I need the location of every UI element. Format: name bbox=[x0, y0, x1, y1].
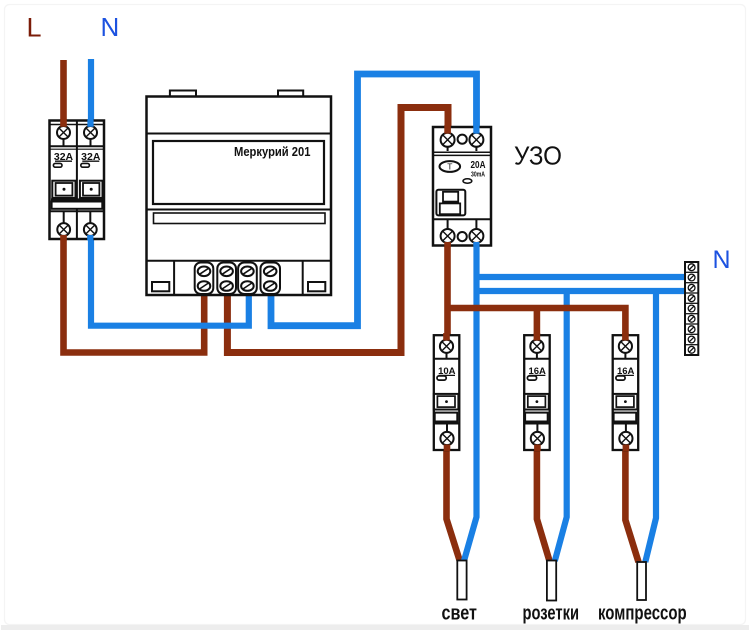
svg-text:32A: 32A bbox=[54, 151, 74, 163]
meter lower slot bbox=[147, 209, 332, 211]
svg-text:30mA: 30mA bbox=[471, 169, 485, 178]
meter terminal 3 bbox=[238, 263, 257, 295]
neutral bus bar N bbox=[685, 262, 698, 355]
meter mounting tabs bbox=[170, 91, 196, 98]
QF1 pole1 top screw bbox=[63, 124, 65, 146]
wire: breaker SF2 out to sockets load (brown) bbox=[537, 444, 550, 561]
RCD bottom center hole bbox=[458, 232, 467, 241]
wire stub N into QF1 bbox=[87, 119, 93, 127]
wire stub L into QF1 bbox=[60, 119, 67, 127]
RCD bottom right screw bbox=[475, 219, 477, 245]
wire: neutral drop to compressor load (blue) bbox=[645, 291, 656, 562]
wire stub L out of RCD bbox=[444, 242, 451, 247]
wire stub L out of QF1 bbox=[60, 235, 67, 241]
svg-text:свет: свет bbox=[442, 603, 478, 625]
breaker SF2 16A bbox=[524, 335, 550, 450]
RCD top center hole bbox=[458, 135, 467, 144]
bottom gray strip bbox=[1, 625, 749, 630]
svg-text:Меркурий 201: Меркурий 201 bbox=[234, 144, 311, 159]
svg-text:N: N bbox=[101, 12, 120, 42]
wire stub N out of QF1 bbox=[87, 235, 93, 241]
svg-text:16A: 16A bbox=[528, 366, 546, 377]
svg-text:L: L bbox=[27, 13, 42, 43]
bus bar screws bbox=[688, 264, 695, 353]
wire: bus bar feed horizontal lower (blue) bbox=[474, 288, 685, 294]
wire stub L into RCD bbox=[444, 125, 451, 134]
wire stub into SF2 bbox=[534, 333, 541, 341]
RCD U1 (UZO) 20A 30mA bbox=[433, 127, 491, 246]
RCD toggle handle bbox=[436, 190, 465, 216]
breaker QF1 double-pole 32A bbox=[50, 121, 105, 240]
wire: neutral drop to sockets load (blue) bbox=[555, 291, 567, 561]
svg-text:розетки: розетки bbox=[523, 603, 580, 625]
wire: breaker SF1 out to light load (brown) bbox=[447, 444, 460, 561]
wire: breaker L out to meter terminal 1 (brown) bbox=[64, 236, 205, 353]
meter terminal 4 bbox=[261, 263, 281, 295]
wire: meter terminal 4 to RCD N in (blue) bbox=[271, 74, 477, 326]
svg-text:Т: Т bbox=[447, 162, 452, 172]
QF1 pole2 bottom screw bbox=[89, 211, 91, 239]
RCD top right screw bbox=[475, 127, 477, 151]
svg-text:УЗО: УЗО bbox=[514, 141, 562, 171]
meter terminal section bbox=[147, 260, 332, 262]
meter body bbox=[147, 97, 332, 296]
QF1 toggle handles bbox=[52, 181, 75, 198]
meter terminal 1 bbox=[195, 263, 214, 295]
QF1 rating pills bbox=[53, 163, 62, 167]
wire: RCD N out down to light load (blue) bbox=[464, 240, 477, 562]
breaker SF1 10A bbox=[434, 335, 460, 450]
RCD bottom left screw bbox=[447, 219, 449, 245]
QF1 tie bar bbox=[52, 202, 103, 209]
svg-text:32A: 32A bbox=[81, 151, 101, 163]
RCD top left screw bbox=[447, 127, 449, 151]
QF1 pole1 bottom screw bbox=[63, 211, 65, 239]
wire stub into SF3 bbox=[622, 333, 629, 341]
wire: N supply into breaker QF1 bbox=[88, 59, 94, 128]
wire: meter terminal 2 to RCD L in (brown) bbox=[227, 108, 448, 353]
meter display window bbox=[153, 141, 324, 204]
cable to light bbox=[457, 561, 466, 600]
wire: phase bus to breakers SF2 SF3 (brown) bbox=[448, 308, 626, 340]
svg-text:N: N bbox=[713, 246, 731, 274]
wire stub out of SF3 bbox=[623, 445, 630, 452]
svg-text:16A: 16A bbox=[617, 366, 635, 377]
meter terminal 2 bbox=[217, 263, 236, 295]
RCD test button bbox=[440, 161, 461, 172]
wire stub N into RCD bbox=[473, 125, 479, 134]
wire: breaker SF3 out to compressor load (brown) bbox=[625, 444, 638, 562]
wire stub out of SF1 bbox=[444, 445, 451, 452]
wire: RCD N to bus bar upper (blue) bbox=[474, 274, 685, 280]
wire: RCD L out down into breaker SF1 (brown) bbox=[444, 240, 451, 340]
svg-text:10A: 10A bbox=[438, 366, 456, 377]
cable to compressor bbox=[637, 562, 646, 600]
meter Mercury 201 bbox=[147, 91, 332, 296]
cable to sockets bbox=[547, 561, 556, 601]
meter side lugs bbox=[152, 282, 169, 291]
wire stub out of SF2 bbox=[534, 445, 541, 452]
svg-text:компрессор: компрессор bbox=[598, 603, 687, 625]
RCD small window bbox=[463, 179, 472, 183]
QF1 pole2 top screw bbox=[90, 124, 92, 146]
wire: L supply into breaker QF1 bbox=[60, 60, 67, 128]
wire: breaker N out to meter terminal 3 (blue) bbox=[91, 236, 249, 326]
wire stub into SF1 bbox=[443, 333, 450, 341]
breaker SF3 16A bbox=[613, 335, 639, 450]
wire stub N out of RCD bbox=[473, 242, 479, 247]
